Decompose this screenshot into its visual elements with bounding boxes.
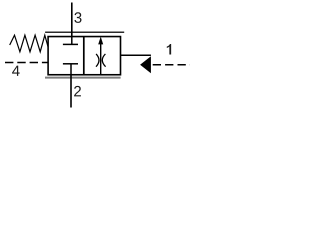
flow arrow shaft	[100, 41, 102, 75]
pilot dashed line port 4	[5, 62, 48, 64]
flow arrow head	[98, 37, 103, 45]
spring	[10, 35, 48, 52]
node label 3	[74, 12, 81, 23]
node label 2	[74, 86, 81, 96]
wire: output line right	[121, 54, 151, 56]
cartridge bottom line (gray)	[45, 77, 121, 79]
wire: port 3 line	[71, 3, 73, 37]
pilot dashed line port 1	[153, 64, 190, 66]
envelope divider line	[83, 37, 85, 75]
orifice right paren	[102, 54, 105, 67]
cartridge top line	[45, 31, 124, 33]
orifice left paren	[96, 54, 99, 67]
wire: port 2 line	[70, 75, 72, 108]
pilot arrow (solid triangle)	[140, 56, 151, 73]
blocked port T lower	[63, 64, 78, 75]
node label 4	[12, 66, 20, 76]
valve body envelope	[48, 37, 120, 75]
node label 1	[167, 44, 171, 55]
blocked port T upper	[63, 36, 78, 44]
